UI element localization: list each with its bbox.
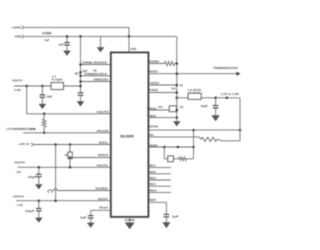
wire VOUT4	[16, 200, 111, 202]
wire EN with hop	[53, 189, 111, 191]
svg-text:(*): (*)	[47, 189, 53, 193]
svg-text:10k: 10k	[180, 105, 184, 109]
svg-text:10µF: 10µF	[46, 95, 52, 99]
junction FB divider bottom	[43, 132, 46, 135]
svg-text:1µF: 1µF	[58, 43, 64, 47]
wire VBAT top rail	[24, 26, 129, 28]
svg-text:DNC1: DNC1	[149, 164, 156, 168]
wire BYP pin	[91, 209, 111, 211]
junction stub VINDCD1	[79, 75, 82, 78]
svg-text:PWRWRGOOD: PWRWRGOOD	[214, 66, 239, 70]
svg-text:1µF: 1µF	[44, 38, 49, 42]
capacitor C6 plates	[88, 215, 94, 217]
junction CFG a	[163, 146, 166, 149]
svg-text:GND: GND	[125, 218, 136, 222]
capacitor C3 plates	[40, 94, 46, 96]
junction VOUT4 cap	[38, 199, 41, 202]
capacitor C7 plates	[213, 105, 219, 107]
wire CFG pin	[148, 146, 193, 148]
svg-text:VINDCD1: VINDCD1	[84, 72, 108, 76]
junction VOUT3 cap	[38, 166, 41, 169]
ground for C7	[215, 108, 217, 115]
junction FB2a rail	[176, 109, 179, 112]
wire VREF2 drop	[165, 202, 167, 213]
junction SDA takeoff	[69, 156, 72, 159]
wire NC3 stub	[148, 179, 171, 181]
wire VIN rail	[24, 35, 177, 37]
junction SCL pullup	[69, 143, 72, 146]
wire stub VINDCD2 pin	[81, 81, 111, 83]
svg-text:PVIN1B: PVIN1B	[149, 88, 159, 92]
svg-text:10µF: 10µF	[25, 209, 35, 213]
svg-text:VIN: VIN	[15, 34, 22, 38]
svg-text:FB1: FB1	[149, 133, 155, 137]
capacitor C4 stem	[38, 167, 40, 174]
svg-text:VINLDO12: VINLDO12	[82, 61, 108, 65]
svg-text:VOUT4: VOUT4	[98, 197, 108, 201]
wire SDA	[70, 157, 111, 159]
wire stub VINLDO pin	[81, 64, 111, 66]
resistor R1 pullup	[164, 61, 174, 65]
svg-text:1.8V: 1.8V	[16, 170, 21, 174]
svg-text:4.7µH: 4.7µH	[52, 78, 63, 82]
svg-text:10µF: 10µF	[201, 104, 209, 108]
wire NC1 stub	[148, 167, 171, 169]
capacitor C2 on rail plates	[78, 92, 84, 94]
svg-text:DNC4: DNC4	[149, 182, 156, 186]
svg-text:VOUT1: VOUT1	[12, 79, 23, 83]
wire SCL	[34, 144, 111, 146]
svg-text:RESETB: RESETB	[149, 70, 158, 74]
wire VREF2 pin	[148, 201, 166, 203]
svg-text:DNC3: DNC3	[149, 176, 156, 180]
svg-text:Vref: Vref	[99, 205, 108, 209]
junction FB2b rail	[176, 116, 179, 119]
ground right rail bottom	[176, 118, 178, 122]
wire VOUT1	[14, 85, 81, 87]
svg-text:VOUT2: VOUT2	[97, 110, 109, 114]
wire FB1 line	[27, 113, 111, 115]
svg-text:LP PWRWRGOOD: LP PWRWRGOOD	[6, 127, 36, 131]
wire right rail vertical	[176, 36, 178, 117]
capacitor C7 stem	[215, 98, 217, 106]
svg-text:10µF: 10µF	[28, 175, 37, 179]
capacitor C1 plates	[64, 42, 70, 44]
svg-text:VOUT3: VOUT3	[97, 163, 108, 167]
svg-text:SCL: SCL	[99, 141, 109, 145]
wire VOUT1 feedback drop	[26, 86, 28, 114]
svg-text:1µF: 1µF	[172, 215, 179, 219]
wire VDD pin drop	[128, 36, 130, 52]
ground for C6	[90, 218, 92, 223]
svg-text:47k: 47k	[158, 105, 163, 109]
ground near IC top-left	[100, 36, 102, 47]
svg-text:DNC5: DNC5	[149, 188, 157, 192]
capacitor C3 10uF stem	[41, 86, 43, 95]
capacitor C8 box	[168, 156, 174, 162]
junction out line end	[226, 97, 229, 100]
svg-text:SDA: SDA	[98, 153, 110, 157]
junction out cap	[214, 97, 217, 100]
capacitor C5 plates	[36, 208, 42, 210]
capacitor C4 plates	[36, 173, 42, 175]
wire branch down to VOUT4	[55, 145, 57, 201]
junction COMP end	[239, 129, 242, 132]
wire PWRGOOD	[148, 73, 236, 75]
capacitor C1 1uF stem	[66, 36, 68, 42]
capacitor C9 plates	[164, 213, 170, 215]
svg-text:1.2V to 1.8V: 1.2V to 1.8V	[221, 92, 240, 96]
wire VOUT3	[18, 166, 111, 168]
svg-text:+3VIN: +3VIN	[12, 25, 21, 29]
svg-text:10k: 10k	[64, 153, 69, 157]
wire PG line	[23, 132, 111, 134]
svg-text:2n2: 2n2	[171, 86, 176, 90]
wire VDCD2 pin	[148, 92, 176, 94]
svg-text:4700R: 4700R	[42, 31, 52, 35]
wire FSEL line	[148, 136, 199, 138]
junction FB divider top	[43, 113, 46, 116]
svg-text:VOUT4: VOUT4	[13, 194, 24, 198]
junction LX line	[176, 97, 179, 100]
ground for C2	[80, 95, 82, 101]
wire left VIN rail vertical	[80, 36, 82, 93]
junction VOUT3 pullup	[69, 166, 72, 169]
ground for C4	[38, 177, 40, 185]
wire LX line	[177, 97, 240, 99]
resistor R5 box on wire	[169, 106, 176, 112]
wire NC4 stub	[148, 185, 171, 187]
wire FB2a pin	[148, 109, 176, 111]
wire RC branch right up	[193, 130, 195, 159]
wire right feedback vertical	[239, 98, 241, 141]
node PWRGOOD arrow	[236, 72, 240, 76]
ground IC bottom	[129, 217, 131, 223]
svg-text:VOUT3: VOUT3	[14, 160, 25, 164]
junction VOUT4 branch	[54, 199, 57, 202]
junction CFG c	[192, 146, 195, 149]
junction VDCD1 rail	[176, 84, 179, 87]
svg-text:1.0V: 1.0V	[17, 203, 23, 207]
wire VBAT drop to VDD junction	[128, 27, 130, 36]
wire NC2 stub	[148, 173, 171, 175]
resistor R2 divider	[43, 114, 45, 119]
capacitor C5 stem	[38, 201, 40, 209]
svg-text:VDD: VDD	[130, 47, 136, 51]
junction CFG b	[177, 146, 180, 149]
junction rail top	[79, 35, 82, 38]
ground for C1	[66, 45, 68, 51]
ground for C5	[38, 211, 40, 218]
svg-text:NC: NC	[75, 71, 79, 75]
junction COMP mid	[192, 129, 195, 132]
svg-text:ISL9305: ISL9305	[120, 135, 134, 139]
svg-text:1µF: 1µF	[80, 216, 87, 220]
inductor L1 box	[51, 83, 64, 90]
junction VIN/VBAT	[128, 35, 131, 38]
junction stub VINDCD2	[79, 80, 82, 83]
junction C1 on VIN rail	[66, 35, 69, 38]
ground for C3	[41, 97, 43, 104]
wire NC5 stub	[148, 191, 171, 193]
svg-text:+3V In: +3V In	[18, 142, 29, 146]
svg-text:DNC2: DNC2	[149, 170, 156, 174]
wire BYP drop	[90, 210, 92, 215]
junction PWRGOOD rail	[176, 72, 179, 75]
junction VOUT1 rail	[79, 85, 82, 88]
junction VOUT1 left	[25, 85, 28, 88]
svg-text:SHDN#: SHDN#	[149, 59, 160, 63]
junction rail mid	[79, 71, 82, 74]
junction stub VINLDO	[79, 63, 82, 66]
junction R1 rail	[176, 62, 179, 65]
svg-text:4R7: 4R7	[180, 84, 184, 88]
wire stub VINDCD1 pin	[81, 75, 111, 77]
wire SHDN pin	[148, 63, 164, 65]
junction VDCD2 rail	[176, 91, 179, 94]
junction SCL branch	[54, 143, 57, 146]
ground for C9	[165, 217, 167, 223]
wire RC branch bottom	[164, 158, 178, 160]
resistor R3 pullup	[69, 145, 71, 153]
wire RC branch left	[163, 147, 165, 159]
svg-text:VINDCD2: VINDCD2	[93, 78, 108, 82]
svg-text:VOUTB2: VOUTB2	[149, 125, 158, 129]
resistor R6 zigzag	[179, 157, 187, 161]
wire COMP line	[148, 129, 240, 131]
inductor L2 box	[188, 93, 201, 99]
op-amp U1 ISL9305 body	[111, 52, 149, 217]
svg-text:1.8V: 1.8V	[14, 88, 21, 92]
svg-text:VPGOOD: VPGOOD	[97, 129, 110, 133]
junction VOUT1 cap	[41, 85, 44, 88]
svg-text:DCDEN: DCDEN	[96, 186, 108, 190]
svg-text:REF: REF	[149, 198, 157, 202]
wire VDCD1 pin	[148, 84, 176, 86]
wire FB2b pin	[148, 117, 176, 119]
